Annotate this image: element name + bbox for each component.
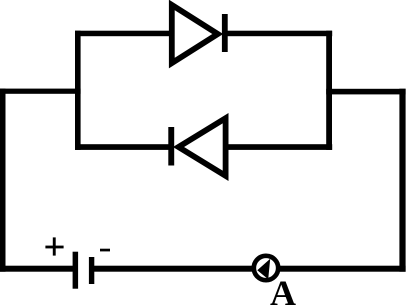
diode (top, right-pointing) xyxy=(172,5,228,63)
diode (bottom, left-pointing) xyxy=(168,118,225,176)
ammeter: circle body xyxy=(254,256,278,280)
wire: bottom right segment (ammeter to right corner) xyxy=(278,266,406,272)
wire: parallel-box left vertical xyxy=(75,31,81,150)
wire: bottom branch right segment xyxy=(226,144,332,150)
wire: bottom middle segment (battery to ammeter) xyxy=(94,266,254,272)
wire: bottom left segment (to battery) xyxy=(0,266,73,272)
wire: left outer vertical xyxy=(0,89,6,272)
wire: middle left horizontal xyxy=(0,89,81,94)
wire: right outer vertical xyxy=(399,89,405,272)
battery: plus label xyxy=(45,237,63,255)
battery: negative plate (short) xyxy=(89,257,94,284)
battery: positive plate (long) xyxy=(73,252,79,289)
ammeter: needle xyxy=(257,259,270,279)
battery: minus label xyxy=(100,249,110,252)
wire: parallel-box right vertical xyxy=(326,31,332,150)
svg-text:A: A xyxy=(270,273,296,305)
wire: middle right horizontal xyxy=(326,89,405,95)
wire: top branch left segment xyxy=(75,31,171,37)
wire: top branch right segment xyxy=(226,31,332,37)
wire: bottom branch left segment xyxy=(75,144,170,150)
